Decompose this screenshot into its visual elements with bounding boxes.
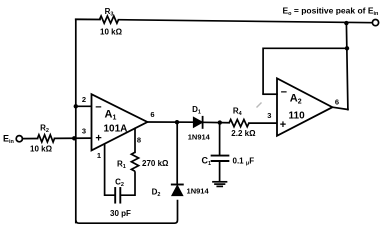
- svg-text:8: 8: [137, 135, 141, 144]
- wire: R4 to pin 3 of A2: [249, 122, 277, 124]
- svg-text:110: 110: [289, 111, 306, 122]
- svg-text:101A: 101A: [104, 124, 128, 135]
- svg-text:1: 1: [97, 151, 101, 160]
- svg-text:3: 3: [267, 111, 271, 120]
- svg-text:6: 6: [150, 110, 154, 119]
- wire: top rail from R3 to output terminal: [119, 20, 373, 23]
- wire: left segment of top feedback rail: [76, 18, 100, 20]
- capacitor C1 plates: [212, 155, 229, 157]
- wire: A2 output up to top rail: [346, 23, 348, 109]
- svg-text:−: −: [95, 101, 101, 113]
- svg-text:6: 6: [335, 98, 339, 107]
- wire: pin 2 input wire to A1: [76, 105, 92, 107]
- node: junction dot on pin3 wire: [72, 136, 76, 140]
- svg-text:1N914: 1N914: [188, 132, 211, 141]
- resistor R1 270k (vertical): [131, 152, 138, 171]
- wire: left vertical summing-node line (R3 to bottom rail): [75, 19, 77, 222]
- svg-text:1N914: 1N914: [187, 187, 210, 196]
- resistor R2 10k (input): [38, 135, 55, 142]
- ground symbol below C1: [213, 181, 227, 183]
- wire: A1 output to D1: [147, 121, 193, 123]
- node: pin2 junction dot: [74, 104, 78, 108]
- node: D1/R4/C1 junction dot: [218, 120, 222, 124]
- diode D2 1N914 (clamp): [172, 185, 183, 195]
- scan smudge (faint): [257, 103, 262, 108]
- svg-text:+: +: [95, 132, 101, 144]
- capacitor C1 bottom lead: [219, 161, 221, 181]
- terminal Eo: [372, 20, 378, 26]
- terminal Ein: [16, 136, 22, 142]
- node: D2 tap junction dot: [175, 120, 179, 124]
- op-amp A1 LM101A triangle: [92, 94, 148, 150]
- resistor R3 10k (top feedback): [100, 16, 119, 23]
- svg-text:Eo = positive peak of Ein: Eo = positive peak of Ein: [283, 5, 380, 17]
- wire: R2 to pin 3 of A1: [55, 137, 92, 139]
- svg-text:10 kΩ: 10 kΩ: [30, 145, 53, 154]
- wire: R1 bottom to C2 right plate: [120, 171, 135, 195]
- svg-text:2.2 kΩ: 2.2 kΩ: [231, 129, 256, 138]
- svg-text:−: −: [281, 87, 287, 99]
- diode D1 1N914 (series): [193, 117, 202, 127]
- capacitor C1 0.1uF: top lead: [219, 123, 221, 156]
- svg-text:30 pF: 30 pF: [110, 209, 131, 218]
- svg-text:10 kΩ: 10 kΩ: [100, 28, 123, 37]
- wire: D2 cathode up to output node: [176, 122, 178, 184]
- svg-text:270 kΩ: 270 kΩ: [142, 159, 169, 168]
- svg-text:0.1 μF: 0.1 μF: [233, 156, 255, 166]
- wire: D1 to node: [203, 121, 230, 123]
- svg-text:2: 2: [82, 95, 86, 104]
- wire: Ein terminal to R2: [22, 138, 37, 140]
- wire: A1 pin 8 lead down to R1: [134, 129, 136, 153]
- node: junction of A2 output with top rail: [344, 21, 348, 25]
- op-amp A2 LM110 triangle: [277, 78, 332, 136]
- svg-text:+: +: [280, 119, 286, 131]
- wire: C2 left plate to pin 1 lead: [105, 144, 116, 195]
- wire: A2 minus input: [263, 93, 277, 95]
- wire: bottom clamp rail: [76, 200, 178, 224]
- capacitor C2 plates: [119, 188, 121, 203]
- node: feedback junction dot: [345, 46, 349, 50]
- wire: A2 feedback loop (left vertical + top horizontal): [263, 48, 347, 94]
- resistor R4 2.2k: [229, 120, 249, 127]
- wire: A2 output from apex: [332, 107, 348, 109]
- svg-text:3: 3: [82, 126, 86, 135]
